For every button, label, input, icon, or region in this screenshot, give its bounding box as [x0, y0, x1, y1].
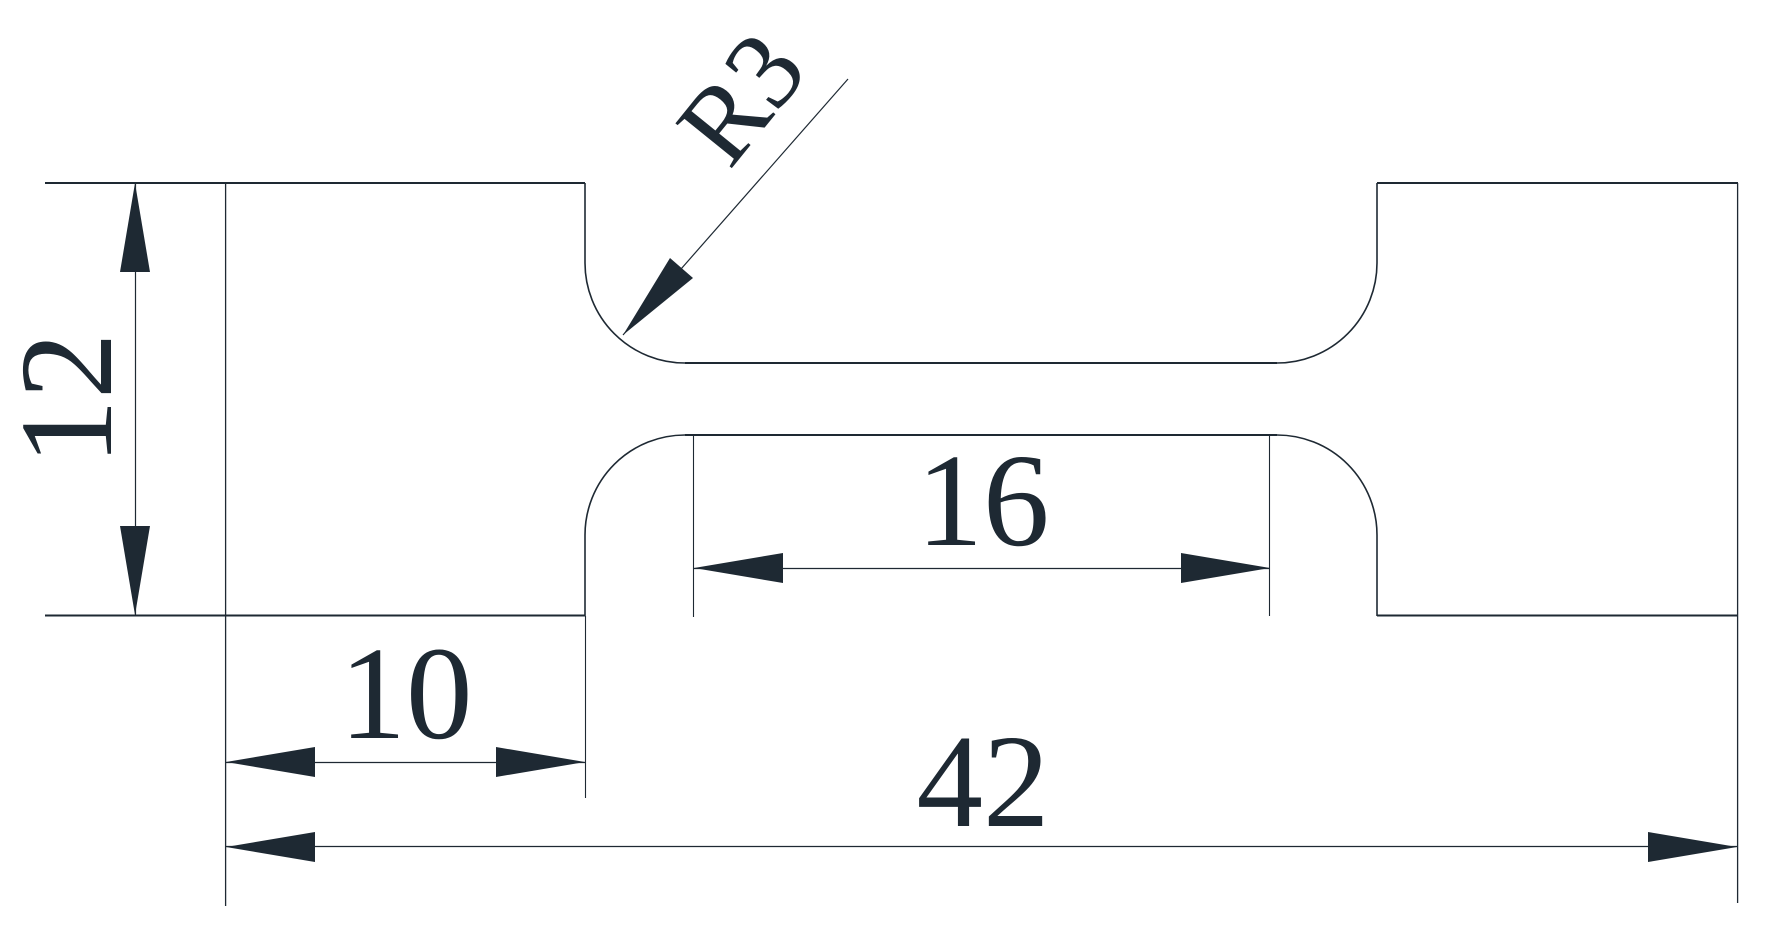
svg-text:42: 42 — [917, 707, 1050, 855]
dimension line 10 — [226, 762, 585, 764]
leader line R3 — [623, 79, 848, 335]
gauge section top edge — [685, 362, 1277, 364]
top-left shoulder vertical — [584, 183, 586, 263]
specimen right edge and extension line down — [1737, 183, 1739, 903]
top-left fillet R3 — [585, 263, 685, 363]
specimen left edge and extension line down — [225, 183, 227, 906]
specimen top edge right grip — [1377, 182, 1738, 184]
extension line right gauge end for dim 16 — [1269, 435, 1271, 616]
arrowhead dim 12 top — [120, 183, 150, 272]
arrowhead dim 42 right — [1648, 832, 1737, 862]
top-right shoulder vertical — [1376, 183, 1378, 263]
dimension line 16 — [694, 568, 1270, 570]
extension line left gauge end for dim 16 — [693, 435, 695, 617]
svg-text:16: 16 — [917, 426, 1050, 574]
arrowhead dim 10 right — [496, 747, 585, 777]
bottom-left fillet R3 — [585, 435, 685, 535]
top-right fillet R3 — [1277, 263, 1377, 363]
bottom-left shoulder vertical — [584, 535, 586, 616]
bottom-right fillet R3 — [1277, 435, 1377, 535]
arrowhead dim 10 left — [226, 747, 315, 777]
extension line below left shoulder for dim 10 — [585, 616, 587, 798]
specimen top edge with left extension line — [45, 182, 585, 184]
arrowhead dim 16 right — [1181, 553, 1270, 583]
arrowhead dim 12 bottom — [120, 526, 150, 615]
arrowhead dim 42 left — [226, 832, 315, 862]
svg-text:12: 12 — [0, 333, 140, 466]
arrowhead dim 16 left — [694, 553, 783, 583]
svg-text:10: 10 — [340, 619, 473, 767]
arrowhead leader R3 — [623, 258, 693, 335]
dimension line 42 — [226, 846, 1737, 848]
specimen bottom edge right grip — [1377, 615, 1738, 617]
specimen bottom edge with left extension line — [45, 615, 585, 617]
gauge section bottom edge — [685, 434, 1277, 436]
dimension line 12 (vertical, left) — [135, 183, 137, 616]
bottom-right shoulder vertical — [1376, 535, 1378, 616]
